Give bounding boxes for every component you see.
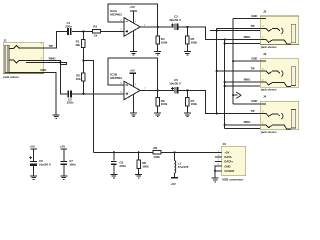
resistor R5 bbox=[186, 27, 198, 51]
svg-text:220n: 220n bbox=[65, 24, 72, 28]
resistor R9 bbox=[153, 146, 161, 159]
svg-text:X1: X1 bbox=[223, 142, 227, 146]
wire IC2A output bbox=[140, 26, 174, 28]
node jog junction bbox=[82, 60, 84, 62]
feedback wire IC2A bbox=[108, 4, 158, 27]
wire J1 tip to C1 bbox=[44, 31, 68, 47]
node B junction bbox=[82, 93, 84, 95]
junction J2 ring switch / ring bus bbox=[224, 42, 226, 44]
gnd bus vertical bbox=[232, 19, 234, 104]
resistor R6 bbox=[156, 90, 168, 112]
USB gnd wire bbox=[215, 166, 221, 178]
svg-text:J1: J1 bbox=[3, 39, 7, 43]
svg-text:jack stereo: jack stereo bbox=[260, 130, 277, 134]
wire bias jog bbox=[83, 61, 93, 153]
svg-text:100k: 100k bbox=[153, 155, 160, 159]
resistor R2 bbox=[76, 61, 85, 94]
wire J1 ring switch bbox=[44, 62, 67, 64]
svg-text:+5V: +5V bbox=[60, 144, 65, 148]
capacitor C7 100n bbox=[60, 159, 76, 175]
op-amp IC2B MCP602 bbox=[110, 72, 146, 99]
jack connector J1 bbox=[2, 39, 46, 79]
svg-text:USB connector: USB connector bbox=[222, 178, 244, 182]
svg-text:+5V: +5V bbox=[171, 182, 176, 186]
wire J1 ring down to C2 bbox=[44, 60, 68, 94]
svg-text:GND: GND bbox=[251, 99, 257, 103]
wire J3 ring switch row bbox=[225, 85, 261, 87]
+5V supply C7 bbox=[60, 144, 67, 161]
+5V supply IC2A bbox=[130, 5, 137, 23]
svg-text:1k: 1k bbox=[94, 33, 98, 37]
jack connector J4 bbox=[260, 95, 299, 134]
wire J1 gnd down bbox=[44, 73, 57, 115]
wire node B to IC2B pin5 bbox=[83, 93, 124, 95]
svg-text:10k: 10k bbox=[75, 43, 80, 47]
tip bus vertical bbox=[216, 28, 218, 113]
+5V supply below L1 bbox=[171, 178, 178, 186]
ground IC2B bbox=[130, 113, 137, 117]
USB data- stub bbox=[215, 156, 221, 158]
resistor R1 bbox=[75, 31, 85, 60]
USB connector X1 bbox=[218, 142, 246, 181]
ground C8 bbox=[110, 174, 117, 178]
svg-text:MCP602: MCP602 bbox=[110, 13, 122, 17]
capacitor C6 10u/50V polarized bbox=[29, 156, 50, 175]
ground R6 bbox=[154, 113, 161, 117]
wire ch1 drop to J2 ring row bbox=[205, 27, 260, 40]
+5V supply IC2B bbox=[130, 69, 137, 87]
junction IC2A out / R4 bbox=[157, 26, 159, 28]
wire C3 to R5 node bbox=[179, 26, 207, 28]
wire J3 gnd row bbox=[233, 60, 260, 62]
junction tip bus / J4 tip row bbox=[216, 113, 218, 115]
svg-text:J3: J3 bbox=[263, 52, 267, 56]
svg-text:COVER: COVER bbox=[224, 169, 234, 173]
junction tip bus / J2 tip switch bbox=[216, 29, 218, 31]
ground IC2A bbox=[130, 52, 137, 56]
capacitor C3 22u/50V polarized bbox=[169, 15, 181, 31]
svg-text:+5V: +5V bbox=[130, 5, 135, 9]
svg-text:100k: 100k bbox=[191, 102, 198, 106]
wire C1 to node A bbox=[72, 30, 84, 32]
resistor R7 bbox=[186, 90, 198, 112]
junction R5 bbox=[186, 26, 188, 28]
bias rail wire bbox=[93, 151, 153, 153]
svg-text:+5V: +5V bbox=[130, 69, 135, 73]
ground R4 bbox=[154, 52, 161, 56]
wire J2 tip row bbox=[217, 27, 261, 29]
+5V supply C6 bbox=[30, 144, 37, 161]
svg-text:100k: 100k bbox=[142, 165, 149, 169]
junction IC2B out / R6 bbox=[157, 89, 159, 91]
svg-text:RING: RING bbox=[244, 120, 251, 124]
svg-text:+5V: +5V bbox=[30, 144, 35, 148]
capacitor C1 220n bbox=[65, 21, 72, 35]
junction ring bus / J4 ring row bbox=[224, 124, 226, 126]
ground C6 bbox=[30, 176, 37, 180]
wire R3 to IC2A pin3 bbox=[101, 30, 125, 32]
wire J4 ring row bbox=[225, 124, 261, 126]
wire J3 ring row bbox=[225, 81, 261, 83]
ground USB bbox=[212, 178, 219, 182]
wire node A to R3 bbox=[83, 30, 92, 32]
svg-text:220n: 220n bbox=[119, 164, 126, 168]
svg-text:100k: 100k bbox=[161, 41, 168, 45]
wire J3 tip row bbox=[217, 70, 261, 72]
junction rail / R8 bbox=[138, 151, 140, 153]
ground R7 bbox=[184, 113, 191, 117]
svg-text:J2: J2 bbox=[263, 10, 267, 14]
wire IC2B output bbox=[140, 89, 174, 91]
svg-text:22u/50 V: 22u/50 V bbox=[169, 18, 181, 22]
ground C7 bbox=[60, 176, 67, 180]
svg-text:RING: RING bbox=[244, 78, 251, 82]
USB data+ stub bbox=[215, 161, 221, 163]
ground R8 bbox=[135, 174, 142, 178]
wire J2 ring switch bbox=[225, 42, 261, 44]
svg-text:DATA-: DATA- bbox=[224, 155, 232, 159]
svg-text:MCP602: MCP602 bbox=[110, 76, 122, 80]
svg-text:GND: GND bbox=[224, 164, 230, 168]
jack connector J3 bbox=[260, 52, 299, 91]
svg-text:R3: R3 bbox=[93, 24, 97, 28]
inductor L1 bbox=[175, 152, 189, 178]
junction rail / C8 bbox=[113, 151, 115, 153]
svg-text:10k: 10k bbox=[76, 77, 81, 81]
svg-text:10u/50 V: 10u/50 V bbox=[39, 163, 51, 167]
svg-text:RING: RING bbox=[244, 35, 251, 39]
op-amp IC2A MCP602 bbox=[110, 9, 146, 36]
svg-text:47u/178: 47u/178 bbox=[178, 165, 189, 169]
USB cover wire bbox=[215, 170, 221, 172]
jack connector J2 bbox=[260, 10, 299, 49]
svg-text:TIP: TIP bbox=[250, 109, 254, 113]
ground R5 bbox=[184, 52, 191, 56]
junction USB gnd / cover bbox=[214, 170, 216, 172]
svg-text:100k: 100k bbox=[191, 41, 198, 45]
wire J4 gnd row bbox=[233, 103, 260, 105]
svg-text:100n: 100n bbox=[69, 163, 76, 167]
junction ring bus top bbox=[224, 39, 226, 41]
ring bus vertical bbox=[224, 40, 226, 129]
wire ch2 drop to J4 tip row bbox=[205, 90, 260, 113]
wire J4 ring switch row bbox=[225, 128, 261, 130]
svg-text:220n: 220n bbox=[67, 101, 74, 105]
junction gnd bus / J3 gnd row bbox=[232, 60, 234, 62]
svg-text:GND: GND bbox=[251, 57, 257, 61]
IC2A ground stub bbox=[133, 31, 135, 51]
node dot ring join bbox=[59, 61, 61, 63]
svg-text:10u/50 V: 10u/50 V bbox=[169, 82, 181, 86]
svg-text:+5V: +5V bbox=[224, 151, 229, 155]
gnd net arrow bbox=[232, 92, 241, 98]
svg-text:jack stereo: jack stereo bbox=[260, 87, 277, 91]
svg-text:jack stereo: jack stereo bbox=[260, 45, 277, 49]
junction R7 bbox=[186, 89, 188, 91]
resistor R4 bbox=[156, 27, 168, 51]
wire J2 tip switch stub bbox=[210, 29, 260, 31]
wire J2 gnd row bbox=[233, 18, 260, 20]
resistor R3 bbox=[92, 24, 100, 37]
junction rail / L1 bbox=[173, 151, 175, 153]
junction ring bus / J3 ring row bbox=[224, 81, 226, 83]
capacitor C5 10u/50V polarized bbox=[169, 78, 181, 93]
junction ring bus / J3 ring switch bbox=[224, 85, 226, 87]
svg-text:J4: J4 bbox=[263, 95, 267, 99]
node A junction bbox=[82, 30, 84, 32]
wire C2 to node B bbox=[72, 93, 84, 95]
svg-text:TIP: TIP bbox=[250, 24, 254, 28]
junction tip bus / J3 tip row bbox=[216, 70, 218, 72]
feedback wire IC2B bbox=[108, 58, 158, 91]
svg-text:jack stereo: jack stereo bbox=[2, 75, 19, 79]
wire C5 to R7 node bbox=[179, 89, 207, 91]
wire R9 to USB bbox=[161, 151, 221, 153]
svg-text:DATA+: DATA+ bbox=[224, 160, 233, 164]
resistor R8 bbox=[137, 152, 149, 174]
svg-text:100k: 100k bbox=[161, 102, 168, 106]
capacitor C8 220n bbox=[111, 152, 126, 174]
svg-text:R9: R9 bbox=[153, 146, 157, 150]
IC2B ground stub bbox=[133, 95, 135, 113]
capacitor C2 220n bbox=[67, 90, 74, 104]
ground input jack bbox=[53, 115, 60, 119]
svg-text:TIP: TIP bbox=[250, 66, 254, 70]
svg-text:GND: GND bbox=[251, 14, 257, 18]
svg-text:GND: GND bbox=[40, 68, 46, 72]
